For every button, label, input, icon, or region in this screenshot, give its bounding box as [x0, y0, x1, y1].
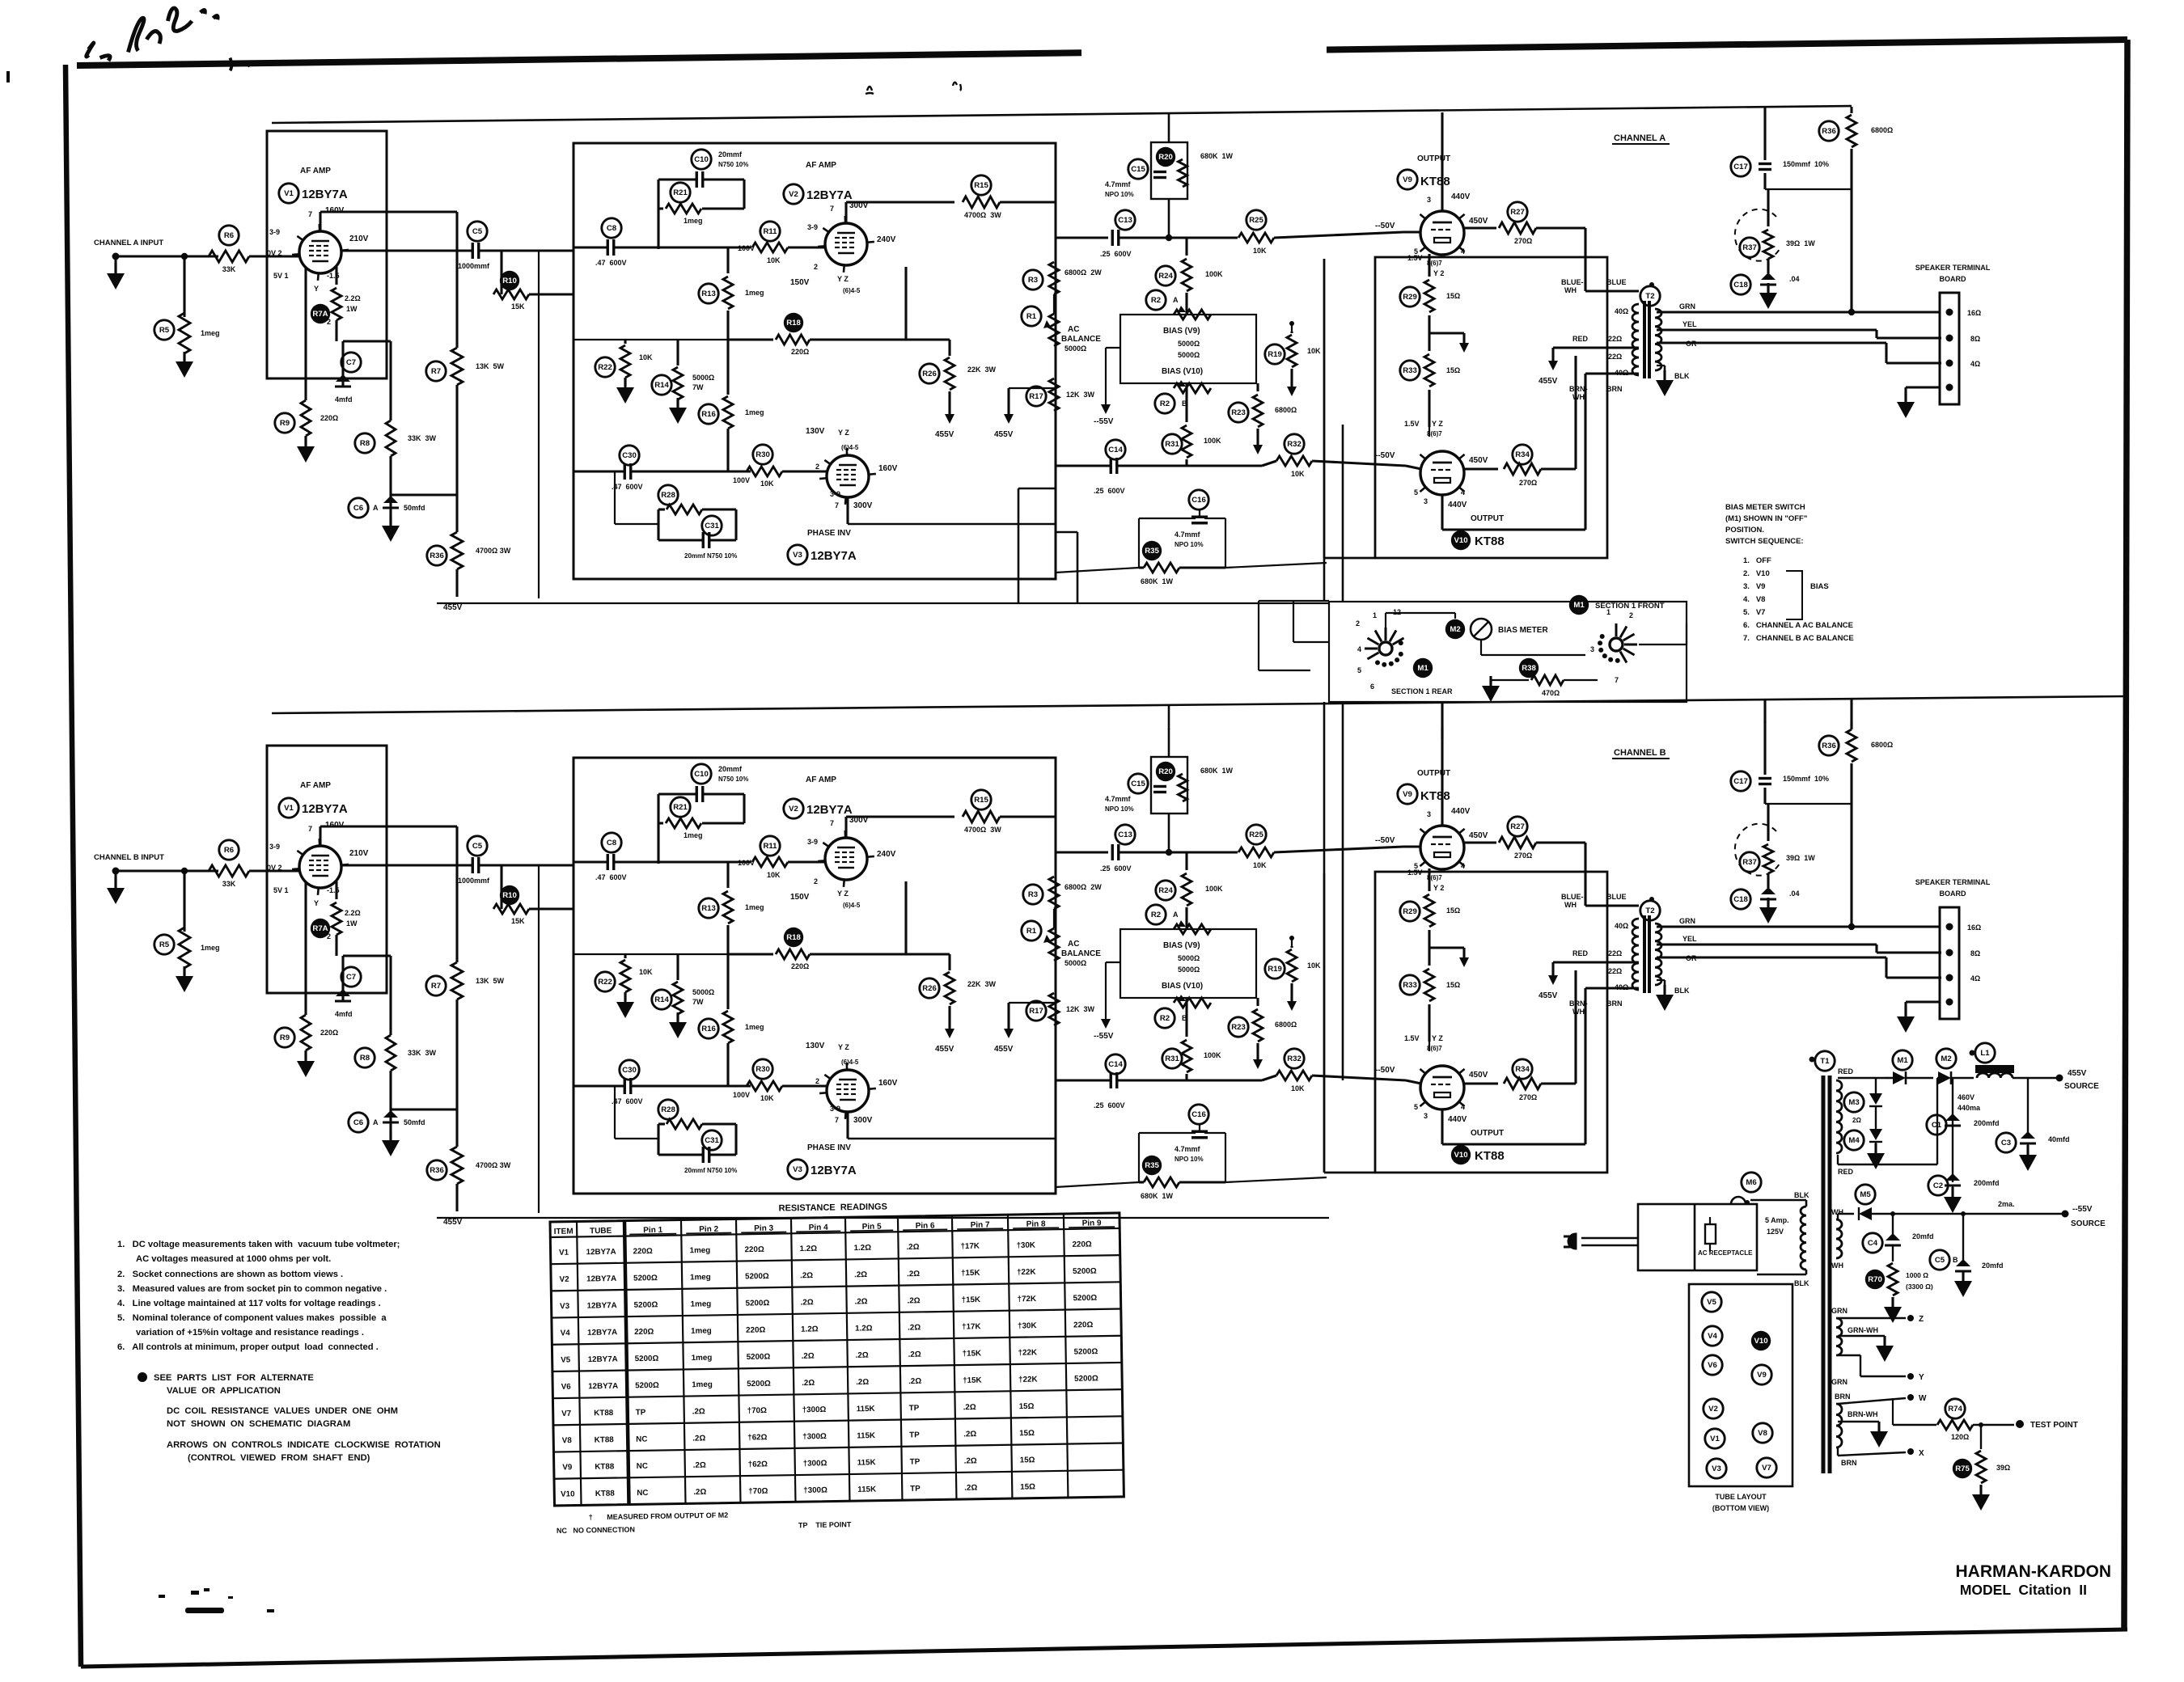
svg-text:C5: C5: [472, 227, 483, 236]
V3 plate wire down: [846, 497, 849, 524]
resistor R23 6800 ohm: [1229, 403, 1248, 422]
svg-text:10K: 10K: [767, 256, 781, 264]
svg-text:R32: R32: [1287, 440, 1302, 449]
wire input junction to R5: [181, 253, 188, 260]
svg-text:BRN: BRN: [1835, 1393, 1851, 1401]
V10 plate wire down: [1441, 494, 1443, 530]
svg-text:T2: T2: [1645, 292, 1654, 301]
svg-text:KT88: KT88: [1420, 175, 1450, 188]
T2 black lead ground: [1657, 365, 1665, 366]
svg-text:.2Ω: .2Ω: [908, 1296, 921, 1305]
svg-text:BRN-WH: BRN-WH: [1848, 1410, 1878, 1418]
svg-text:3: 3: [1427, 196, 1431, 204]
svg-text:.2Ω: .2Ω: [801, 1298, 814, 1307]
svg-text:M1: M1: [1417, 664, 1428, 673]
AF AMP stage box: [267, 131, 387, 378]
grid return line: [1199, 509, 1200, 518]
svg-text:GRN-WH: GRN-WH: [1848, 1326, 1878, 1334]
svg-text:7: 7: [830, 205, 834, 213]
svg-text:R28: R28: [661, 491, 675, 500]
svg-text:1meg: 1meg: [690, 1273, 711, 1282]
svg-text:.2Ω: .2Ω: [963, 1403, 976, 1412]
svg-text:5. V7: 5. V7: [1743, 608, 1765, 617]
tube layout circles: [1702, 1292, 1721, 1312]
svg-text:R36: R36: [1822, 127, 1836, 136]
feedback combo C16 4.7mmf R35 680K: [1189, 490, 1208, 509]
svg-text:2: 2: [814, 263, 818, 271]
svg-text:.2Ω: .2Ω: [856, 1351, 869, 1360]
svg-text:BIAS: BIAS: [1810, 582, 1829, 591]
svg-text:6800Ω: 6800Ω: [1871, 126, 1893, 134]
svg-text:R2: R2: [1160, 399, 1170, 408]
svg-text:.2Ω: .2Ω: [693, 1461, 706, 1470]
svg-text:1.2Ω: 1.2Ω: [853, 1244, 871, 1253]
svg-text:1.2Ω: 1.2Ω: [799, 1245, 817, 1253]
svg-text:13K 5W: 13K 5W: [476, 362, 505, 370]
svg-text:115K: 115K: [857, 1405, 875, 1414]
svg-text:RESISTANCE READINGS: RESISTANCE READINGS: [779, 1202, 887, 1213]
rotary switch section 1 front: [1610, 638, 1623, 651]
svg-text:12BY7A: 12BY7A: [811, 549, 857, 563]
svg-text:ARROWS ON CONTROLS INDICATE: ARROWS ON CONTROLS INDICATE CLOCKWISE RO…: [167, 1440, 441, 1450]
svg-text:4: 4: [1461, 488, 1465, 497]
bias meter switch enclosure box: [1329, 602, 1687, 702]
resistor R74 120 ohm: [1945, 1399, 1965, 1418]
svg-text:TEST POINT: TEST POINT: [2030, 1421, 2078, 1430]
svg-text:10K: 10K: [1307, 347, 1321, 355]
wire V1 bias node: [343, 340, 391, 342]
svg-text:R20: R20: [1158, 153, 1173, 162]
svg-text:450V: 450V: [1469, 456, 1488, 465]
svg-text:RED: RED: [1838, 1067, 1854, 1076]
svg-text:Y: Y: [1919, 1373, 1924, 1382]
svg-text:5200Ω: 5200Ω: [745, 1272, 769, 1281]
svg-text:220Ω: 220Ω: [320, 414, 338, 422]
svg-text:V5: V5: [561, 1355, 571, 1364]
svg-text:2: 2: [1356, 619, 1360, 628]
svg-text:220Ω: 220Ω: [634, 1328, 654, 1337]
bias filter C5 20mfd: [1961, 1211, 1966, 1216]
svg-text:.2Ω: .2Ω: [908, 1323, 921, 1332]
KT88 cathode bus: [1428, 427, 1430, 437]
svg-text:1. DC voltage measurements t: 1. DC voltage measurements taken with va…: [117, 1240, 400, 1249]
svg-text:†72K: †72K: [1017, 1295, 1036, 1304]
-55V source terminal: [2062, 1211, 2069, 1218]
resistor R38 470 ohm: [1519, 658, 1539, 678]
svg-text:R2: R2: [1151, 296, 1161, 305]
svg-text:.2Ω: .2Ω: [693, 1488, 706, 1497]
svg-text:8Ω: 8Ω: [1970, 335, 1980, 343]
svg-text:TP: TP: [636, 1408, 646, 1417]
svg-text:1. OFF: 1. OFF: [1743, 556, 1771, 565]
svg-text:7: 7: [1615, 676, 1619, 684]
svg-text:SOURCE: SOURCE: [2071, 1219, 2106, 1228]
svg-text:NC: NC: [637, 1489, 648, 1498]
svg-text:12BY7A: 12BY7A: [806, 188, 853, 202]
svg-text:40mfd: 40mfd: [2048, 1135, 2070, 1143]
svg-text:R22: R22: [598, 363, 612, 372]
svg-text:.2Ω: .2Ω: [692, 1407, 705, 1416]
svg-text:HARMAN-KARDON: HARMAN-KARDON: [1956, 1562, 2111, 1581]
svg-text:variation of +15%in voltage an: variation of +15%in voltage and resistan…: [136, 1328, 364, 1338]
svg-text:210V: 210V: [349, 235, 369, 243]
svg-text:1000 Ω: 1000 Ω: [1906, 1271, 1928, 1279]
svg-text:CHANNEL B: CHANNEL B: [1614, 748, 1666, 758]
svg-text:C16: C16: [1191, 496, 1206, 505]
svg-text:15Ω: 15Ω: [1019, 1402, 1035, 1411]
svg-text:R24: R24: [1158, 272, 1173, 281]
svg-text:NC NO CONNECTION: NC NO CONNECTION: [557, 1525, 635, 1535]
svg-text:440V: 440V: [1448, 501, 1467, 509]
svg-text:4700Ω 3W: 4700Ω 3W: [964, 211, 1001, 219]
svg-text:BLK: BLK: [1674, 372, 1690, 380]
svg-text:2ma.: 2ma.: [1998, 1200, 2015, 1208]
svg-text:NC: NC: [636, 1435, 647, 1444]
svg-text:(M1) SHOWN IN "OFF": (M1) SHOWN IN "OFF": [1725, 514, 1807, 523]
svg-text:M4: M4: [1848, 1136, 1860, 1145]
svg-text:(CONTROL VIEWED FROM SHAFT: (CONTROL VIEWED FROM SHAFT END): [188, 1453, 370, 1463]
stray mark left edge: [6, 71, 10, 82]
resistor R22 10K with ground: [595, 357, 615, 377]
svg-text:R21: R21: [673, 188, 688, 197]
svg-text:20mfd: 20mfd: [1912, 1232, 1934, 1240]
resistor R3 6800 ohm 2W on box edge: [1023, 270, 1043, 289]
svg-text:1meg: 1meg: [745, 408, 764, 416]
svg-text:5200Ω: 5200Ω: [1073, 1294, 1097, 1303]
svg-text:†17K: †17K: [962, 1322, 981, 1331]
svg-text:15Ω: 15Ω: [1020, 1482, 1035, 1491]
svg-text:V9: V9: [1757, 1371, 1767, 1380]
svg-text:BIAS (V10): BIAS (V10): [1162, 367, 1203, 376]
svg-text:R36: R36: [430, 552, 444, 560]
meter wires: [1385, 613, 1386, 628]
svg-text:TP: TP: [909, 1431, 920, 1439]
svg-text:ITEM: ITEM: [554, 1228, 574, 1236]
svg-text:V9: V9: [562, 1463, 573, 1472]
bias diode M5: [1856, 1185, 1875, 1204]
svg-text:R15: R15: [974, 181, 988, 190]
svg-text:680K 1W: 680K 1W: [1141, 577, 1174, 585]
svg-text:1000mmf: 1000mmf: [458, 262, 490, 270]
svg-text:5200Ω: 5200Ω: [1073, 1267, 1097, 1276]
circuit breaker M6: [1742, 1173, 1761, 1192]
channel B top rail: [272, 696, 2127, 713]
svg-text:2. V10: 2. V10: [1743, 569, 1770, 578]
svg-text:†22K: †22K: [1018, 1376, 1038, 1384]
svg-text:CHANNEL B INPUT: CHANNEL B INPUT: [94, 853, 164, 862]
svg-text:R6: R6: [224, 231, 234, 240]
svg-text:22Ω: 22Ω: [1608, 335, 1622, 343]
svg-text:V10: V10: [1454, 536, 1467, 545]
svg-text:1.5V: 1.5V: [1404, 420, 1420, 428]
svg-text:200mfd: 200mfd: [1974, 1119, 2000, 1127]
bottom-left smudge marks: [185, 1608, 224, 1613]
svg-text:1meg: 1meg: [691, 1326, 712, 1335]
svg-text:GRN: GRN: [1679, 302, 1695, 311]
svg-text:5200Ω: 5200Ω: [747, 1380, 771, 1388]
svg-text:Y Z: Y Z: [838, 429, 849, 437]
svg-text:V1: V1: [284, 189, 294, 198]
resistor R28 1meg with capacitor C31 parallel loop: [658, 485, 678, 505]
svg-text:M1: M1: [1573, 601, 1585, 610]
svg-text:.2Ω: .2Ω: [908, 1350, 921, 1359]
svg-text:C31: C31: [705, 522, 719, 530]
handwritten annotation top-left: [87, 8, 273, 70]
svg-text:V6: V6: [1708, 1361, 1717, 1370]
svg-text:1meg: 1meg: [692, 1354, 713, 1363]
svg-text:R34: R34: [1515, 450, 1530, 459]
svg-text:5. Nominal tolerance of comp: 5. Nominal tolerance of component values…: [117, 1313, 387, 1323]
svg-text:455V: 455V: [994, 430, 1014, 439]
cathode resistor R33 15 ohm: [1400, 361, 1420, 380]
svg-text:2. Socket connections are sh: 2. Socket connections are shown as botto…: [117, 1270, 343, 1279]
resistor R37 39 ohm: [1740, 238, 1759, 257]
svg-text:5000Ω: 5000Ω: [692, 374, 714, 382]
resistor R25 10K: [1246, 210, 1266, 230]
svg-text:CHANNEL A: CHANNEL A: [1614, 133, 1666, 143]
svg-text:160V: 160V: [878, 464, 898, 473]
svg-text:5200Ω: 5200Ω: [746, 1299, 770, 1308]
svg-text:4700Ω 3W: 4700Ω 3W: [476, 547, 511, 555]
resistor R34 270 ohm: [1463, 467, 1498, 470]
svg-text:R75: R75: [1955, 1464, 1970, 1473]
svg-text:R25: R25: [1249, 216, 1263, 225]
V9 plate wire to top: [1441, 191, 1443, 212]
svg-text:V2: V2: [789, 190, 798, 199]
svg-text:40Ω: 40Ω: [1615, 307, 1628, 315]
bias filter C4 20mfd: [1890, 1211, 1895, 1216]
svg-text:SPEAKER TERMINAL: SPEAKER TERMINAL: [1915, 264, 1991, 272]
svg-text:22K 3W: 22K 3W: [967, 366, 997, 374]
svg-text:12BY7A: 12BY7A: [587, 1301, 617, 1311]
svg-text:Y: Y: [314, 285, 319, 293]
cathode tap arrow: [1429, 332, 1464, 334]
feedback vertical wire: [538, 251, 540, 598]
svg-text:SECTION 1 FRONT: SECTION 1 FRONT: [1595, 602, 1665, 611]
svg-text:V2: V2: [560, 1275, 570, 1284]
svg-text:5000Ω: 5000Ω: [1064, 344, 1086, 353]
svg-text:12BY7A: 12BY7A: [302, 188, 348, 201]
svg-text:C4: C4: [1868, 1239, 1878, 1248]
resistor R10 15K: [500, 251, 502, 294]
svg-text:0V 2: 0V 2: [267, 249, 282, 257]
svg-text:6: 6: [1370, 683, 1374, 691]
svg-text:1.2Ω: 1.2Ω: [855, 1324, 873, 1333]
svg-text:.2Ω: .2Ω: [964, 1456, 977, 1465]
switch M1 front designator: [1569, 595, 1589, 615]
svg-text:SWITCH SEQUENCE:: SWITCH SEQUENCE:: [1725, 537, 1804, 546]
svg-text:15Ω: 15Ω: [1446, 366, 1460, 374]
svg-text:BRN: BRN: [1841, 1459, 1857, 1467]
AC plug: [1568, 1234, 1576, 1249]
svg-text:5200Ω: 5200Ω: [635, 1381, 659, 1390]
resistor R5 1meg: [154, 320, 174, 340]
svg-text:†15K: †15K: [961, 1269, 980, 1278]
svg-text:BRN-: BRN-: [1569, 385, 1588, 393]
svg-text:3: 3: [1590, 645, 1594, 653]
svg-text:4.7mmf: 4.7mmf: [1175, 530, 1201, 539]
output tube V10 KT88: [1420, 451, 1464, 495]
svg-text:20mmf N750 10%: 20mmf N750 10%: [684, 552, 737, 560]
svg-text:15Ω: 15Ω: [1446, 292, 1460, 300]
svg-text:R33: R33: [1403, 366, 1417, 375]
svg-text:4mfd: 4mfd: [335, 395, 353, 404]
svg-text:KT88: KT88: [1475, 535, 1505, 548]
ground left of R38: [1489, 680, 1492, 684]
svg-text:6800Ω: 6800Ω: [1275, 406, 1297, 414]
rectifier M1 diode: [1893, 1050, 1912, 1070]
svg-text:AF AMP: AF AMP: [300, 167, 331, 175]
svg-text:†62Ω: †62Ω: [747, 1433, 768, 1442]
svg-text:12BY7A: 12BY7A: [586, 1274, 616, 1284]
svg-text:R11: R11: [763, 227, 777, 236]
test point terminal: [2016, 1420, 2024, 1428]
svg-text:220Ω: 220Ω: [1073, 1321, 1094, 1329]
svg-text:TP: TP: [909, 1404, 920, 1413]
svg-text:(6)4-5: (6)4-5: [843, 287, 861, 294]
resistor R9 220 ohm: [275, 413, 294, 433]
svg-text:RED: RED: [1838, 1168, 1854, 1176]
svg-text:†22K: †22K: [1018, 1348, 1038, 1357]
svg-text:BALANCE: BALANCE: [1061, 335, 1101, 344]
resistance readings table: [550, 1198, 1124, 1535]
svg-text:YEL: YEL: [1682, 320, 1697, 328]
svg-text:5200Ω: 5200Ω: [747, 1353, 771, 1362]
svg-text:240V: 240V: [877, 235, 896, 244]
svg-text:15Ω: 15Ω: [1020, 1456, 1035, 1464]
svg-text:C8: C8: [607, 224, 617, 233]
resistor R8 33K 3W: [355, 433, 375, 453]
T1 designator: [1809, 1057, 1815, 1063]
svg-text:Y Z: Y Z: [837, 275, 849, 283]
svg-text:130V: 130V: [806, 427, 825, 436]
svg-text:3-9: 3-9: [269, 228, 280, 236]
resistor R26 22K 3W to 455V: [920, 364, 939, 383]
svg-text:10K: 10K: [1291, 470, 1305, 478]
svg-text:C2: C2: [1933, 1181, 1943, 1190]
svg-text:BIAS (V9): BIAS (V9): [1163, 327, 1200, 336]
svg-text:KT88: KT88: [595, 1462, 615, 1471]
capacitor C6 50mfd: [349, 498, 368, 518]
svg-text:B: B: [1953, 1256, 1958, 1264]
svg-text:RED: RED: [1572, 335, 1589, 343]
phase inverter stage box: [574, 143, 1056, 579]
bias feed verticals from channel A: [1323, 558, 1326, 602]
svg-text:455V: 455V: [935, 430, 954, 439]
svg-text:BLUE-: BLUE-: [1561, 278, 1584, 286]
svg-text:C6: C6: [353, 504, 363, 513]
grid drive line upper KT88: [1056, 236, 1108, 239]
svg-text:Z: Z: [1919, 1315, 1924, 1324]
svg-text:R17: R17: [1029, 392, 1043, 401]
svg-text:15K: 15K: [511, 302, 525, 311]
svg-text:WH: WH: [1564, 286, 1577, 294]
bias pot R2A: [1146, 290, 1166, 310]
capacitor C7 4mfd: [341, 353, 361, 372]
svg-text:†15K: †15K: [963, 1349, 982, 1358]
svg-text:C1: C1: [1932, 1121, 1942, 1130]
svg-text:440ma: 440ma: [1958, 1104, 1981, 1112]
svg-text:†300Ω: †300Ω: [802, 1405, 827, 1414]
svg-text:R8: R8: [360, 439, 370, 448]
svg-text:270Ω: 270Ω: [1514, 237, 1532, 245]
svg-text:.2Ω: .2Ω: [854, 1270, 867, 1279]
svg-text:†300Ω: †300Ω: [803, 1485, 827, 1494]
svg-text:--50V: --50V: [1375, 222, 1395, 230]
bias balance feed loop left of switch: [1018, 488, 1020, 602]
svg-text:.47 600V: .47 600V: [612, 483, 643, 491]
svg-text:22Ω: 22Ω: [1608, 353, 1622, 361]
svg-text:200mfd: 200mfd: [1974, 1179, 2000, 1187]
svg-text:R3: R3: [1028, 276, 1038, 285]
svg-text:R29: R29: [1403, 293, 1417, 302]
svg-text:MODEL Citation II: MODEL Citation II: [1960, 1582, 2087, 1598]
svg-text:100V: 100V: [738, 244, 755, 252]
svg-text:AC: AC: [1068, 325, 1079, 334]
svg-text:C3: C3: [2001, 1139, 2011, 1147]
svg-text:.47 600V: .47 600V: [595, 259, 627, 267]
svg-text:150mmf 10%: 150mmf 10%: [1783, 160, 1829, 168]
svg-text:N750 10%: N750 10%: [718, 161, 748, 168]
V9 grid wire: [1403, 230, 1421, 233]
svg-text:A: A: [1173, 296, 1179, 304]
svg-text:150V: 150V: [790, 278, 810, 287]
wire V2 cathode bus to R26: [906, 338, 950, 340]
svg-text:.2Ω: .2Ω: [692, 1434, 705, 1443]
svg-text:SOURCE: SOURCE: [2064, 1082, 2099, 1091]
svg-text:220Ω: 220Ω: [744, 1245, 764, 1254]
resistor R75 39 ohm: [1979, 1422, 1983, 1427]
svg-text:R31: R31: [1165, 440, 1179, 449]
svg-text:33K: 33K: [222, 265, 236, 273]
svg-text:1meg: 1meg: [689, 1246, 710, 1255]
svg-text:V1: V1: [1710, 1435, 1720, 1443]
svg-text:220Ω: 220Ω: [746, 1325, 766, 1334]
bias network box: [1120, 315, 1256, 383]
svg-text:4. Line voltage maintained a: 4. Line voltage maintained at 117 volts …: [117, 1299, 381, 1308]
svg-text:PHASE INV: PHASE INV: [807, 529, 851, 538]
svg-text:C30: C30: [622, 451, 637, 460]
AC receptacle box: [1638, 1204, 1757, 1270]
svg-text:R5: R5: [159, 326, 170, 335]
svg-text:NOT SHOWN ON SCHEMATIC DIA: NOT SHOWN ON SCHEMATIC DIAGRAM: [167, 1419, 350, 1429]
svg-text:20mmf: 20mmf: [718, 150, 743, 158]
svg-text:V8: V8: [562, 1436, 573, 1445]
svg-text:C18: C18: [1733, 281, 1748, 289]
parts list note with bullet: [138, 1372, 147, 1382]
svg-text:TUBE LAYOUT: TUBE LAYOUT: [1715, 1493, 1767, 1501]
svg-text:†70Ω: †70Ω: [748, 1487, 768, 1496]
tube V2 12BY7A (AF amp): [825, 223, 867, 265]
svg-text:115K: 115K: [857, 1485, 876, 1494]
svg-text:455V: 455V: [443, 603, 463, 612]
svg-text:4. V8: 4. V8: [1743, 595, 1765, 604]
svg-text:BIAS METER: BIAS METER: [1498, 626, 1548, 635]
svg-text:V2: V2: [1708, 1405, 1718, 1414]
channel B rail patch wires: [1441, 702, 1443, 739]
455V rail wire: [437, 602, 1329, 604]
svg-text:220Ω: 220Ω: [1072, 1240, 1092, 1249]
svg-text:3: 3: [1424, 497, 1428, 505]
resistor R18 220 ohm: [784, 313, 803, 332]
svg-text:C15: C15: [1131, 165, 1145, 174]
svg-text:100K: 100K: [1204, 437, 1221, 445]
resistor R15 4700 ohm 3W: [971, 175, 991, 195]
svg-text:V10: V10: [1754, 1337, 1767, 1346]
svg-text:39Ω: 39Ω: [1996, 1464, 2010, 1472]
rectifier M2 diode: [1936, 1049, 1956, 1068]
speaker board ground: [1906, 386, 1940, 388]
